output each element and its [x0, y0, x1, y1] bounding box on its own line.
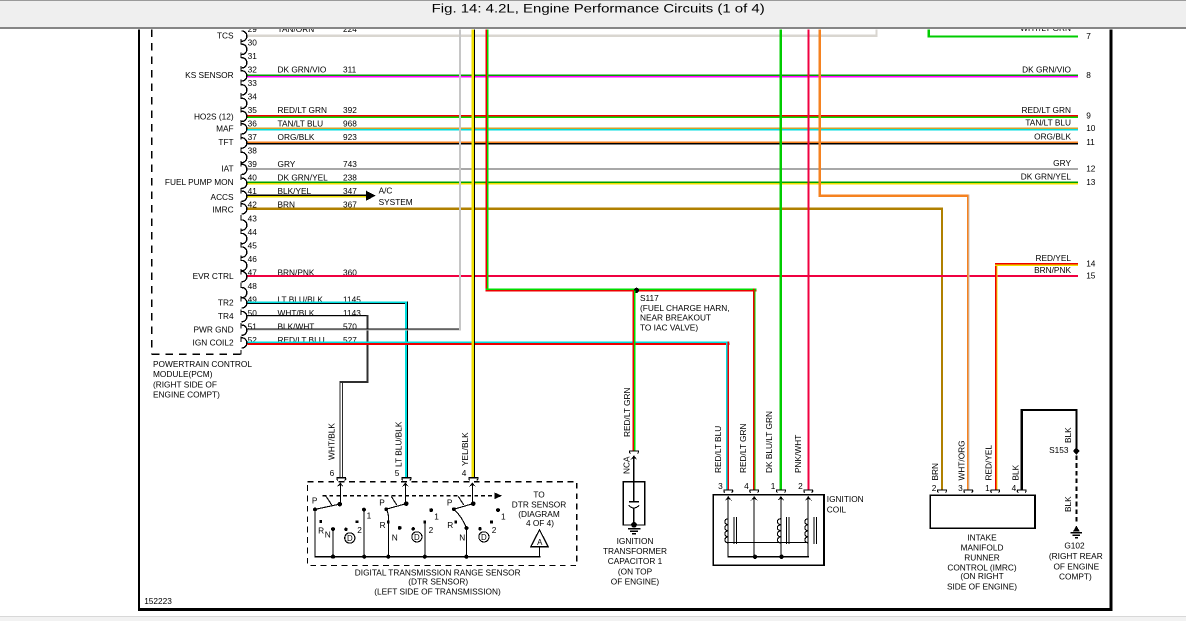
svg-text:(RIGHT SIDE OF: (RIGHT SIDE OF — [153, 379, 217, 389]
arrow to A/C system — [366, 191, 375, 201]
svg-text:MANIFOLD: MANIFOLD — [961, 543, 1004, 553]
svg-text:BLK: BLK — [1063, 496, 1073, 512]
wire pin 49 black stripe — [247, 303, 408, 304]
wire pin 49 LT BLU/BLK vertical to DTR pin 5 — [405, 301, 408, 477]
PCM pin 50 connector arc and number — [242, 308, 362, 322]
PCM pin 47 connector arc and number — [242, 267, 358, 282]
svg-text:4: 4 — [1012, 483, 1017, 493]
rotated wire label LT BLU/BLK at x 398 — [394, 421, 404, 467]
svg-text:RED/LT GRN: RED/LT GRN — [738, 424, 748, 473]
PCM pin 34 connector arc and number — [242, 92, 258, 109]
svg-text:D: D — [347, 534, 353, 543]
svg-text:RED/LT BLU: RED/LT BLU — [713, 426, 723, 473]
svg-text:A: A — [537, 538, 543, 547]
svg-text:(DTR SENSOR): (DTR SENSOR) — [408, 576, 468, 586]
svg-text:OF ENGINE): OF ENGINE) — [611, 577, 660, 587]
svg-text:4: 4 — [462, 468, 467, 478]
svg-text:IMRC: IMRC — [212, 205, 233, 215]
svg-text:TO: TO — [533, 489, 545, 499]
svg-text:DK GRN/VIO: DK GRN/VIO — [278, 65, 327, 75]
svg-text:P: P — [447, 497, 453, 507]
svg-text:HO2S (12): HO2S (12) — [194, 111, 234, 121]
rotated wire label RED/YEL at x 988 — [984, 445, 994, 481]
diagram frame right border — [1110, 30, 1113, 611]
wire pin 39 GRY 743 to circuit 12 — [247, 168, 1078, 170]
rotated wire label WHT/ORG at x 961 — [957, 440, 967, 480]
svg-text:P: P — [312, 496, 318, 506]
capacitor C1 caption — [603, 536, 667, 587]
svg-text:D: D — [414, 533, 420, 542]
wire PNK/WHT vertical from top to coil pin 2 — [808, 30, 810, 490]
PCM signal label HO2S (12) — [194, 111, 234, 121]
label S153 — [1049, 445, 1069, 455]
label circuit 15 BRN/PNK right edge — [1034, 265, 1096, 281]
wire RED/LT GRN vertical from top — [486, 30, 489, 292]
svg-text:RED/YEL: RED/YEL — [1035, 253, 1071, 263]
svg-text:743: 743 — [343, 159, 357, 169]
svg-text:ORG/BLK: ORG/BLK — [278, 132, 315, 142]
PCM pin 39 connector arc and number — [242, 159, 358, 174]
svg-text:30: 30 — [248, 38, 258, 48]
ignition coil internal arrows and shafts — [725, 496, 812, 557]
rotated wire label NCA at x 626 — [622, 456, 632, 474]
svg-text:(LEFT SIDE OF TRANSMISSION): (LEFT SIDE OF TRANSMISSION) — [374, 586, 501, 596]
svg-text:IAT: IAT — [221, 163, 233, 173]
svg-text:38: 38 — [248, 146, 258, 156]
DTR pin 6 connector — [330, 468, 347, 480]
svg-text:7: 7 — [1086, 31, 1091, 41]
PCM pin 31 connector arc and number — [242, 51, 258, 68]
rotated wire label BLK at x 1068 — [1063, 427, 1073, 443]
svg-text:RED/LT GRN: RED/LT GRN — [1022, 105, 1071, 115]
svg-text:3: 3 — [958, 483, 963, 493]
svg-text:INTAKE: INTAKE — [967, 532, 997, 542]
svg-text:46: 46 — [248, 254, 258, 264]
svg-text:RED/LT GRN: RED/LT GRN — [278, 105, 327, 115]
svg-text:EVR CTRL: EVR CTRL — [193, 271, 234, 281]
rotated wire label YEL/BLK at x 465 — [460, 432, 470, 466]
svg-text:TRANSFORMER: TRANSFORMER — [603, 546, 667, 556]
PCM pin 43 connector arc and number — [242, 213, 258, 230]
PCM connector U1 dashed outline bottom border — [152, 353, 242, 355]
DTR pin 4 connector — [462, 468, 479, 480]
ignition coil pin 3 connector — [718, 481, 733, 493]
svg-text:TR4: TR4 — [218, 311, 234, 321]
svg-text:DK GRN/YEL: DK GRN/YEL — [1021, 172, 1072, 182]
label diagram number 152223 — [144, 596, 172, 606]
label circuit 13 DK GRN/YEL right edge — [1021, 172, 1096, 188]
DTR sensor dashed box — [308, 482, 577, 566]
label A/C SYSTEM — [379, 186, 413, 208]
svg-text:DK BLU/LT GRN: DK BLU/LT GRN — [764, 411, 774, 473]
PCM pin 32 connector arc and number — [242, 65, 357, 82]
PCM pin 41 connector arc and number — [242, 186, 358, 201]
ignition coil winding L3 — [805, 517, 817, 544]
svg-text:(ON RIGHT: (ON RIGHT — [960, 571, 1003, 581]
PCM signal label KS SENSOR — [185, 70, 233, 80]
wire pin 29 TAN/ORN vertical to top — [876, 30, 878, 37]
svg-text:BRN/PNK: BRN/PNK — [1034, 265, 1071, 275]
svg-text:S117: S117 — [640, 293, 659, 303]
node S153 splice diamond — [1073, 447, 1080, 455]
PCM pin 33 connector arc and number — [242, 78, 258, 95]
label circuit 7 WHT/LT GRN right edge — [1020, 23, 1091, 41]
capacitor C1 box — [623, 482, 645, 525]
label G102 caption — [1049, 541, 1103, 582]
PCM pin 49 connector arc and number — [242, 294, 362, 308]
svg-text:32: 32 — [248, 65, 258, 75]
ground G102 symbol — [1071, 526, 1083, 539]
PCM pin 52 connector arc and number — [242, 335, 358, 348]
svg-text:13: 13 — [1086, 177, 1096, 187]
svg-text:3: 3 — [718, 481, 723, 491]
svg-text:12: 12 — [1086, 163, 1096, 173]
wire RED/LT GRN drop to ignition transformer capacitor — [633, 291, 636, 451]
svg-text:WHT/BLK: WHT/BLK — [327, 423, 337, 460]
svg-text:R: R — [380, 520, 386, 530]
svg-text:11: 11 — [1086, 137, 1095, 147]
svg-text:1: 1 — [985, 483, 990, 493]
svg-text:SYSTEM: SYSTEM — [379, 197, 413, 207]
PCM signal label MAF — [216, 123, 234, 133]
svg-text:2: 2 — [357, 525, 362, 535]
wire pin 49 LT BLU/BLK 1145 horizontal — [247, 301, 408, 303]
PCM pin 40 connector arc and number — [242, 173, 358, 189]
PCM signal label IAT — [221, 163, 233, 173]
svg-text:ENGINE COMPT): ENGINE COMPT) — [153, 389, 220, 399]
svg-text:1: 1 — [434, 511, 439, 521]
IMRC caption — [947, 532, 1017, 591]
svg-text:9: 9 — [1086, 110, 1091, 120]
wire circuit 7 WHT/LT GRN vertical from top — [928, 30, 930, 38]
PCM signal label FUEL PUMP MON — [165, 177, 234, 187]
wire RED/LT GRN vertical to coil pin 4 — [753, 289, 756, 490]
svg-text:2: 2 — [932, 483, 937, 493]
IMRC pin 4 connector — [1012, 483, 1027, 493]
PCM pin 44 connector arc and number — [242, 227, 258, 244]
svg-text:IGNITION: IGNITION — [617, 536, 654, 546]
PCM caption — [153, 359, 252, 399]
ignition coil winding L1 — [725, 517, 737, 544]
PCM pin 36 connector arc and number — [242, 119, 358, 134]
wire pin 51 BLK/WHT 570 horizontal — [247, 329, 460, 331]
PCM pin 38 connector arc and number — [242, 146, 258, 163]
svg-text:R: R — [447, 520, 453, 530]
ignition coil rail junction dots — [753, 555, 784, 559]
wire pin 37 ORG/BLK 923 to circuit 11 — [247, 142, 1078, 145]
rotated wire label RED/LT GRN at x 627 — [622, 388, 632, 437]
PCM signal label ACCS — [211, 192, 235, 202]
PCM signal label IGN COIL2 — [193, 338, 234, 348]
PCM pin 42 connector arc and number — [242, 200, 358, 214]
IMRC pin 3 connector — [958, 483, 973, 493]
IMRC box — [930, 495, 1035, 528]
svg-text:392: 392 — [343, 105, 357, 115]
ignition coil pin 1 connector — [771, 481, 786, 493]
IMRC pin 1 connector — [985, 483, 1000, 493]
svg-text:G102: G102 — [1064, 541, 1085, 551]
label circuit 11 ORG/BLK right edge — [1034, 132, 1095, 148]
svg-text:ORG/BLK: ORG/BLK — [1034, 132, 1071, 142]
svg-text:RUNNER: RUNNER — [964, 553, 1000, 563]
label TO DTR SENSOR — [512, 489, 566, 528]
svg-text:WHT/ORG: WHT/ORG — [957, 440, 967, 480]
ignition coil internal rails — [728, 542, 809, 558]
svg-text:RED/YEL: RED/YEL — [984, 445, 994, 481]
svg-text:37: 37 — [248, 132, 258, 142]
svg-text:P: P — [379, 497, 385, 507]
svg-text:43: 43 — [248, 213, 258, 223]
svg-text:1: 1 — [501, 511, 506, 521]
DTR sensor caption — [355, 567, 521, 596]
capacitor C1 symbol — [629, 482, 640, 525]
DTR rail junction dots — [331, 555, 469, 559]
svg-text:COIL: COIL — [827, 504, 847, 514]
svg-text:2: 2 — [429, 525, 434, 535]
DTR switch 2 (pin at x=406.4) — [379, 482, 439, 556]
svg-text:PWR GND: PWR GND — [193, 324, 233, 334]
rotated wire label RED/LT GRN at x 743 — [738, 424, 748, 473]
svg-text:36: 36 — [248, 119, 258, 129]
svg-text:14: 14 — [1086, 259, 1096, 269]
label circuit 9 RED/LT GRN right edge — [1022, 105, 1092, 121]
DTR bottom rail wire — [314, 547, 540, 558]
wire YEL/BLK vertical from top to DTR pin 4 — [472, 30, 475, 478]
svg-text:6: 6 — [330, 468, 335, 478]
svg-text:LT BLU/BLK: LT BLU/BLK — [394, 421, 404, 467]
svg-text:BLK: BLK — [1063, 427, 1073, 443]
svg-text:ACCS: ACCS — [211, 192, 235, 202]
label circuit 8 DK GRN/VIO right edge — [1022, 64, 1091, 80]
svg-text:5: 5 — [395, 468, 400, 478]
svg-text:(FUEL CHARGE HARN,: (FUEL CHARGE HARN, — [640, 303, 730, 313]
svg-text:31: 31 — [248, 51, 258, 61]
svg-text:GRY: GRY — [1053, 158, 1071, 168]
svg-text:KS SENSOR: KS SENSOR — [185, 70, 233, 80]
svg-text:NCA: NCA — [622, 456, 632, 474]
rotated wire label DK BLU/LT GRN at x 769 — [764, 411, 774, 473]
ignition coil winding L2 — [777, 517, 789, 544]
svg-text:N: N — [459, 533, 465, 543]
svg-text:311: 311 — [343, 65, 357, 75]
rotated wire label RED/LT BLU at x 718 — [713, 426, 723, 473]
PCM signal label PWR GND — [193, 324, 233, 334]
ignition coil pin 2 connector — [798, 481, 813, 493]
svg-text:TAN/LT BLU: TAN/LT BLU — [278, 119, 324, 129]
diagram frame bottom border — [138, 608, 1113, 611]
wire circuit 7 WHT/LT GRN horizontal — [928, 35, 1078, 37]
svg-text:NEAR BREAKOUT: NEAR BREAKOUT — [640, 313, 711, 323]
svg-text:4 OF 4): 4 OF 4) — [526, 518, 554, 528]
wire pin 50 WHT/BLK 1143 horizontal — [247, 315, 368, 317]
PCM signal label TCS — [217, 31, 234, 41]
PCM signal label EVR CTRL — [193, 271, 234, 281]
DTR linkage dashed line with arrow — [323, 493, 503, 500]
label circuit 14 RED/YEL right edge — [1035, 253, 1095, 269]
ignition coil pin 4 connector — [744, 481, 759, 493]
svg-text:N: N — [392, 533, 398, 543]
svg-text:152223: 152223 — [144, 596, 172, 606]
rotated wire label BLK at x 1068 — [1063, 496, 1073, 512]
DTR switch 3 (pin at x=473.4) — [447, 482, 506, 556]
PCM pin 46 connector arc and number — [242, 254, 258, 271]
wire BLK dashed to ground G102 — [1075, 456, 1077, 525]
svg-text:D: D — [481, 533, 487, 542]
PCM signal label IMRC — [212, 205, 233, 215]
wire BLK from IMRC pin 4 up and right to S153 — [1021, 409, 1078, 490]
svg-text:BRN: BRN — [930, 463, 940, 481]
diagram frame left border — [138, 30, 140, 611]
ignition coil box — [713, 495, 824, 566]
svg-text:DK GRN/YEL: DK GRN/YEL — [278, 173, 329, 183]
wire RED/YEL from IMRC pin 1 up and right to circuit 14 — [995, 263, 1078, 490]
svg-text:4: 4 — [744, 481, 749, 491]
svg-text:FUEL PUMP MON: FUEL PUMP MON — [165, 177, 234, 187]
svg-text:1: 1 — [367, 511, 372, 521]
svg-text:1: 1 — [771, 481, 776, 491]
wire pin 29 TAN/ORN 224 horizontal — [247, 35, 877, 37]
svg-text:(ON TOP: (ON TOP — [618, 566, 653, 576]
svg-text:IGNITION: IGNITION — [827, 494, 864, 504]
PCM connector U1 dashed outline left border — [151, 30, 153, 355]
svg-text:MAF: MAF — [216, 123, 234, 133]
svg-text:48: 48 — [248, 281, 258, 291]
wire pin 32 DK GRN/VIO 311 to circuit 8 — [247, 74, 1078, 77]
svg-text:2: 2 — [492, 525, 497, 535]
PCM pin 48 connector arc and number — [242, 281, 258, 298]
svg-text:8: 8 — [1086, 70, 1091, 80]
PCM signal label TR2 — [218, 298, 234, 308]
svg-text:TR2: TR2 — [218, 298, 234, 308]
wire pin 36 TAN/LT BLU 968 to circuit 10 — [247, 127, 1078, 130]
label circuit 10 TAN/LT BLU right edge — [1025, 117, 1095, 133]
svg-text:968: 968 — [343, 119, 357, 129]
svg-text:2: 2 — [798, 481, 803, 491]
svg-text:39: 39 — [248, 159, 258, 169]
svg-text:OF ENGINE: OF ENGINE — [1053, 561, 1099, 571]
rotated wire label PNK/WHT at x 798 — [793, 435, 803, 473]
wire pin 42 BRN vertical to IMRC pin 2 — [941, 207, 943, 489]
svg-text:PNK/WHT: PNK/WHT — [793, 435, 803, 473]
svg-text:923: 923 — [343, 132, 357, 142]
capacitor C1 ground dot and ground symbol — [628, 522, 641, 534]
ignition coil label — [827, 494, 864, 514]
PCM pin 30 connector arc and number — [242, 38, 258, 55]
svg-text:RED/LT GRN: RED/LT GRN — [622, 388, 632, 437]
svg-text:10: 10 — [1086, 123, 1096, 133]
PCM pin 37 connector arc and number — [242, 132, 358, 148]
wire pin 47 BRN/PNK 360 to circuit 15 — [247, 275, 1078, 277]
svg-text:GRY: GRY — [278, 159, 296, 169]
wire pin 40 DK GRN/YEL 238 to circuit 13 — [247, 182, 1078, 185]
svg-text:BLK: BLK — [1011, 464, 1021, 480]
wire pin 50 WHT/BLK vertical jog to DTR pin 6 — [340, 315, 369, 477]
svg-text:SIDE OF ENGINE): SIDE OF ENGINE) — [947, 581, 1017, 591]
wire pin 41 BLK/YEL 347 to A/C system — [247, 195, 366, 198]
svg-text:TFT: TFT — [218, 137, 233, 147]
PCM connector U1 dashed outline right border — [240, 39, 242, 355]
rotated wire label BLK at x 1015 — [1011, 464, 1021, 480]
svg-text:35: 35 — [248, 105, 258, 115]
wire pin 52 RED/LT BLU 527 horizontal — [247, 341, 729, 344]
svg-text:N: N — [325, 529, 331, 539]
wire pin 51 BLK/WHT vertical to top — [459, 30, 461, 331]
svg-text:COMPT): COMPT) — [1059, 571, 1092, 581]
rotated wire label BRN at x 935 — [930, 463, 940, 481]
IMRC pin 2 connector — [932, 483, 947, 493]
svg-text:S153: S153 — [1049, 445, 1069, 455]
svg-text:R: R — [318, 526, 324, 536]
svg-text:YEL/BLK: YEL/BLK — [460, 432, 470, 466]
PCM pin 29 connector arc and number — [242, 24, 358, 41]
wire pin 35 RED/LT GRN 392 to circuit 9 — [247, 115, 1078, 118]
DTR pin 5 connector — [395, 468, 412, 480]
svg-text:TAN/LT BLU: TAN/LT BLU — [1025, 117, 1071, 127]
capacitor C1 connector NCA — [629, 450, 639, 481]
label S117 fuel charge harness — [640, 293, 730, 332]
wire WHT/ORG vertical from top with jog to IMRC pin 3 — [819, 30, 970, 490]
wire pin 42 BRN 367 horizontal — [247, 207, 943, 209]
svg-text:44: 44 — [248, 227, 258, 237]
wire pin 52 RED/LT BLU vertical to coil pin 3 — [726, 341, 729, 489]
label circuit 12 GRY right edge — [1053, 158, 1096, 174]
svg-text:TCS: TCS — [217, 31, 234, 41]
svg-text:IGN COIL2: IGN COIL2 — [193, 338, 234, 348]
svg-text:POWERTRAIN CONTROL: POWERTRAIN CONTROL — [153, 359, 252, 369]
rotated wire label WHT/BLK at x 331 — [327, 423, 337, 460]
wire DK BLU/LT GRN vertical from top to coil pin 1 — [780, 30, 782, 490]
svg-text:Fig. 14: 4.2L, Engine Performa: Fig. 14: 4.2L, Engine Performance Circui… — [432, 2, 765, 16]
wire RED/LT GRN S117 horizontal run — [486, 289, 757, 292]
connector A triangle to DTR sensor diagram 4 of 4 — [531, 530, 548, 547]
svg-text:A/C: A/C — [379, 186, 393, 196]
DTR switch 1 (pin at x=341.3) — [312, 482, 372, 556]
svg-text:45: 45 — [248, 240, 258, 250]
PCM pin 45 connector arc and number — [242, 240, 258, 257]
PCM pin 51 connector arc and number — [242, 321, 358, 335]
PCM signal label TR4 — [218, 311, 234, 321]
svg-text:MODULE(PCM): MODULE(PCM) — [153, 369, 213, 379]
svg-text:TO IAC VALVE): TO IAC VALVE) — [640, 322, 698, 332]
svg-text:40: 40 — [248, 173, 258, 183]
svg-text:15: 15 — [1086, 271, 1096, 281]
svg-text:DK GRN/VIO: DK GRN/VIO — [1022, 64, 1071, 74]
svg-text:238: 238 — [343, 173, 357, 183]
svg-text:34: 34 — [248, 92, 258, 102]
svg-text:(RIGHT REAR: (RIGHT REAR — [1049, 551, 1103, 561]
PCM signal label TFT — [218, 137, 233, 147]
node S117 junction dot — [634, 288, 639, 293]
svg-text:33: 33 — [248, 78, 258, 88]
svg-text:CAPACITOR 1: CAPACITOR 1 — [608, 556, 663, 566]
PCM pin 35 connector arc and number — [242, 105, 358, 121]
